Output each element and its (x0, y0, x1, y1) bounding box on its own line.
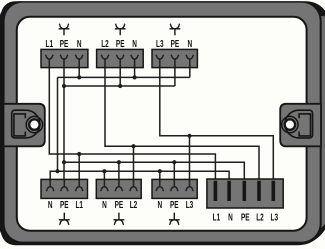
pins X1 (L1 PE N clamp contacts) (45, 55, 83, 67)
wire: net L2 (top L2 down, across, to 5-pole L2 bar) (105, 59, 259, 183)
svg-text:PE: PE (60, 37, 69, 49)
svg-text:PE: PE (116, 37, 125, 49)
X7 contact bar L1 (214, 181, 218, 201)
svg-text:L2: L2 (130, 198, 138, 210)
enclosure flange face (right side) (296, 3, 325, 230)
svg-text:L3: L3 (271, 211, 279, 223)
wire: net L1 (top L1 down, across, to 5-pole L1 bar) (49, 59, 215, 183)
junction: X1 N drop on N top rail (77, 75, 81, 79)
svg-text:L2: L2 (256, 211, 264, 223)
pins X6 (N PE L3 clamp contacts) (156, 180, 193, 191)
mounting lug left: lug body (12, 110, 43, 138)
svg-text:PE: PE (115, 198, 124, 210)
feed symbol above X1 PE (59, 24, 70, 35)
svg-text:L1: L1 (213, 211, 221, 223)
wire: top block1 PE straight down to bottom block1 PE (63, 59, 65, 186)
junction: PE trunk on PE bottom rail (62, 160, 66, 164)
pins X5 (N PE L2 clamp contacts) (101, 180, 138, 191)
svg-text:N: N (187, 37, 192, 49)
junction: X5 L2 stub on L2 rail (131, 144, 135, 148)
feed symbol above X2 PE (115, 24, 126, 35)
pins X2 (L2 PE N clamp contacts) (101, 55, 138, 67)
terminal block X2 (top, L2 PE N) (97, 49, 144, 67)
wire: stub PE rail to bottom block2 PE pin (118, 162, 120, 186)
terminal block X4 (bottom, N PE L1) (41, 179, 88, 198)
wire: stub N rail to bottom block3 N pin (159, 171, 161, 186)
terminal block X3 (top, L3 PE N) (152, 49, 197, 67)
junction: X6 L3 stub on L3 rail (187, 134, 191, 138)
svg-text:N: N (132, 37, 137, 49)
svg-text:L2: L2 (101, 37, 109, 49)
junction: X2 PE drop on PE top rail (118, 84, 122, 88)
junction: X5 PE stub on PE bottom rail (117, 160, 121, 164)
wire: N bottom rail from block1 N pin to 5-pole N bar (50, 171, 229, 186)
junction: X5 N stub on N bottom rail (102, 169, 106, 173)
wire: stub N rail to bottom block2 N pin (103, 171, 105, 186)
feed symbol below X5 PE (114, 213, 125, 225)
feed symbol above X3 PE (170, 24, 181, 35)
enclosure interior (17, 17, 307, 231)
svg-text:N: N (157, 198, 162, 210)
pins X3 (L3 PE N clamp contacts) (156, 55, 194, 67)
svg-text:N: N (102, 198, 107, 210)
junction: N feed descender on N bottom rail (55, 169, 59, 173)
wire: PE bottom rail to 5-pole PE bar (64, 162, 244, 183)
mounting lug right: wall bulge (280, 104, 321, 147)
wire: stub PE rail to bottom block3 PE pin (173, 162, 175, 186)
wire: stub L2 rail to bottom block2 L2 pin (133, 146, 135, 186)
wire: stub L1 rail to bottom block1 L1 pin (78, 154, 80, 186)
feed symbol below X6 PE (169, 213, 180, 225)
mounting lug left: wall bulge (4, 104, 45, 147)
junction: X4 L1 stub on L1 rail (77, 152, 81, 156)
svg-text:PE: PE (170, 198, 179, 210)
terminal block X5 (bottom, N PE L2) (96, 179, 141, 198)
X7 contact bar PE (243, 181, 247, 201)
svg-text:L1: L1 (46, 37, 54, 49)
svg-text:PE: PE (241, 211, 250, 223)
wire: N feed descender (57, 77, 59, 171)
junction: X2 N drop on N top rail (133, 75, 137, 79)
svg-text:L3: L3 (156, 37, 164, 49)
wire: top block2 PE drop (119, 59, 121, 86)
svg-text:L1: L1 (75, 198, 83, 210)
wire: N top rail (58, 76, 190, 78)
wire: PE top rail (64, 85, 175, 87)
mounting lug right: lug body (282, 110, 313, 138)
svg-text:PE: PE (171, 37, 180, 49)
svg-text:PE: PE (60, 198, 69, 210)
svg-text:N: N (77, 37, 82, 49)
svg-text:L3: L3 (186, 198, 194, 210)
X7 contact bar L3 (272, 181, 276, 201)
feed symbol below X4 PE (59, 213, 70, 225)
svg-text:N: N (228, 211, 233, 223)
labels X1 (46, 37, 279, 223)
junction: X6 PE stub on PE bottom rail (172, 160, 176, 164)
terminal block X7 (bottom right, 5-pole) (207, 179, 283, 208)
pins X4 (N PE L1 clamp contacts) (46, 180, 83, 191)
svg-text:N: N (48, 198, 53, 210)
wire: top block3 N drop (189, 59, 191, 78)
terminal block X6 (bottom, N PE L3) (152, 179, 197, 198)
wire: top block3 PE drop (174, 59, 176, 86)
X7 contact bar L2 (257, 181, 261, 201)
wire: top block1 N drop (78, 59, 80, 78)
wire: net L3 (top L3 down, across, to 5-pole L3 bar) (160, 59, 273, 183)
terminal block X1 (top, L1 PE N) (41, 49, 88, 67)
X7 contact bar N (227, 181, 231, 201)
junction: X6 N stub on N bottom rail (158, 169, 162, 173)
wire: top block2 N drop (134, 59, 136, 78)
junction: X1 PE riser on PE top rail (62, 84, 66, 88)
wire: stub L3 rail to bottom block3 L3 pin (189, 136, 191, 187)
